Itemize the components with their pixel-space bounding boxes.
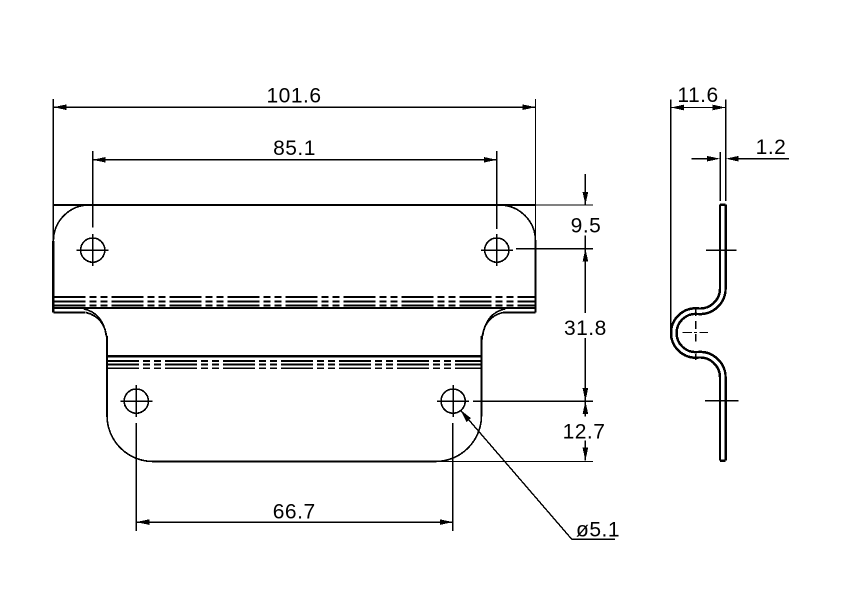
- side view upper hole center mark: [706, 249, 736, 251]
- bottom edge extension to right dims: [432, 461, 593, 463]
- svg-text:11.6: 11.6: [677, 84, 718, 107]
- dim 1.2 arrow right: [726, 156, 739, 162]
- dim 85.1 line: [93, 159, 497, 161]
- dim 12.7 arrow bottom: [583, 448, 589, 461]
- svg-text:101.6: 101.6: [266, 85, 321, 108]
- step fillet arc left inner: [84, 309, 107, 336]
- svg-text:31.8: 31.8: [564, 317, 607, 340]
- dim 66.7 extension line right: [452, 423, 454, 531]
- step fillet arc right outer: [482, 313, 503, 341]
- side view bottom end cap: [720, 460, 726, 462]
- lower plate right edge: [480, 336, 482, 416]
- lower bend line dashed 3: [107, 367, 482, 369]
- upper plate bottom edge solid: [53, 307, 535, 309]
- hole H1 upper-left circle: [81, 238, 105, 262]
- lower plate bottom edge: [153, 460, 436, 462]
- hole H2 crosshair: [481, 234, 513, 266]
- dim 101.6 extension line left: [52, 99, 54, 241]
- dim 85.1 arrow left: [93, 157, 106, 163]
- side view lower hole center mark: [705, 400, 739, 402]
- hole H4 crosshair: [437, 385, 469, 417]
- step bottom edge left: [53, 312, 85, 314]
- dim 9.5 line upper segment: [584, 174, 586, 249]
- dim 101.6 extension line right: [535, 99, 537, 241]
- front view top-left corner arc: [53, 205, 89, 241]
- dim 101.6 line: [53, 106, 535, 108]
- lower plate top edge: [107, 355, 482, 357]
- dim 9.5 arrow top: [583, 192, 589, 205]
- side view inner profile line: [677, 205, 726, 461]
- dim 12.7 arrow top: [583, 401, 589, 414]
- leader line for hole diameter: [460, 410, 615, 539]
- lower plate left edge: [106, 336, 108, 416]
- dim 85.1 extension line left: [92, 151, 94, 228]
- dim 11.6 arrow right: [713, 105, 726, 111]
- upper bend line dashed 2: [53, 300, 535, 302]
- svg-text:12.7: 12.7: [563, 421, 606, 444]
- dim 11.6 extension line right: [725, 100, 727, 202]
- lower bend line dashed 2: [107, 364, 482, 366]
- dim 85.1 arrow right: [484, 157, 497, 163]
- dim 1.2 line left tail: [692, 158, 708, 160]
- dim 9.5 arrow bottom / dim 31.8 arrow top: [583, 249, 589, 262]
- upper hole center extension line right: [516, 248, 593, 250]
- dim 31.8 line: [584, 249, 586, 402]
- side view bump center mark: [683, 310, 708, 361]
- front view right edge: [534, 241, 536, 313]
- dim 66.7 line: [136, 521, 453, 523]
- dim 11.6 arrow left: [671, 105, 684, 111]
- front view top-right corner arc: [500, 205, 536, 241]
- side view top end cap: [720, 203, 726, 205]
- hole H3 lower-left circle: [124, 389, 148, 413]
- dim 101.6 arrow left: [53, 104, 66, 110]
- svg-text:1.2: 1.2: [756, 136, 787, 159]
- step fillet arc left outer: [86, 313, 107, 341]
- svg-text:9.5: 9.5: [571, 215, 602, 238]
- lower plate bottom-left corner arc: [107, 416, 153, 462]
- top edge extension to right dims: [536, 204, 593, 206]
- dim 11.6 line: [671, 107, 726, 109]
- hole H1 crosshair: [77, 234, 109, 266]
- dim 85.1 extension line right: [496, 151, 498, 229]
- dim 31.8 arrow bottom: [583, 388, 589, 401]
- hole H2 upper-right circle: [485, 238, 509, 262]
- side view outer profile line: [671, 205, 720, 461]
- hole H3 crosshair: [120, 385, 152, 417]
- svg-text:85.1: 85.1: [273, 137, 316, 160]
- lower hole center extension line right: [473, 400, 593, 402]
- dim 66.7 arrow left: [136, 519, 149, 525]
- svg-text:66.7: 66.7: [273, 500, 316, 523]
- step bottom edge right: [503, 312, 536, 314]
- dim 66.7 extension line left: [135, 423, 137, 531]
- front view outline top edge: [53, 204, 535, 206]
- front view left edge: [52, 241, 54, 313]
- hole H4 lower-right circle: [441, 389, 465, 413]
- dim 12.7 line: [584, 401, 586, 461]
- dim 101.6 arrow right: [523, 104, 536, 110]
- upper bend line dashed 1: [53, 296, 535, 298]
- lower bend line dashed 1: [107, 360, 482, 362]
- svg-text:ø5.1: ø5.1: [576, 519, 620, 542]
- lower plate bottom-right corner arc: [436, 416, 482, 462]
- step fillet arc right inner: [483, 309, 506, 336]
- dim 1.2 arrow left: [707, 156, 720, 162]
- dim 1.2 extension line left: [719, 152, 721, 201]
- upper bend line dashed 3: [53, 305, 535, 307]
- dim 1.2 line right tail: [739, 158, 790, 160]
- dim 66.7 arrow right: [440, 519, 453, 525]
- dim 11.6 extension line left: [670, 100, 672, 339]
- leader arrow: [460, 410, 471, 422]
